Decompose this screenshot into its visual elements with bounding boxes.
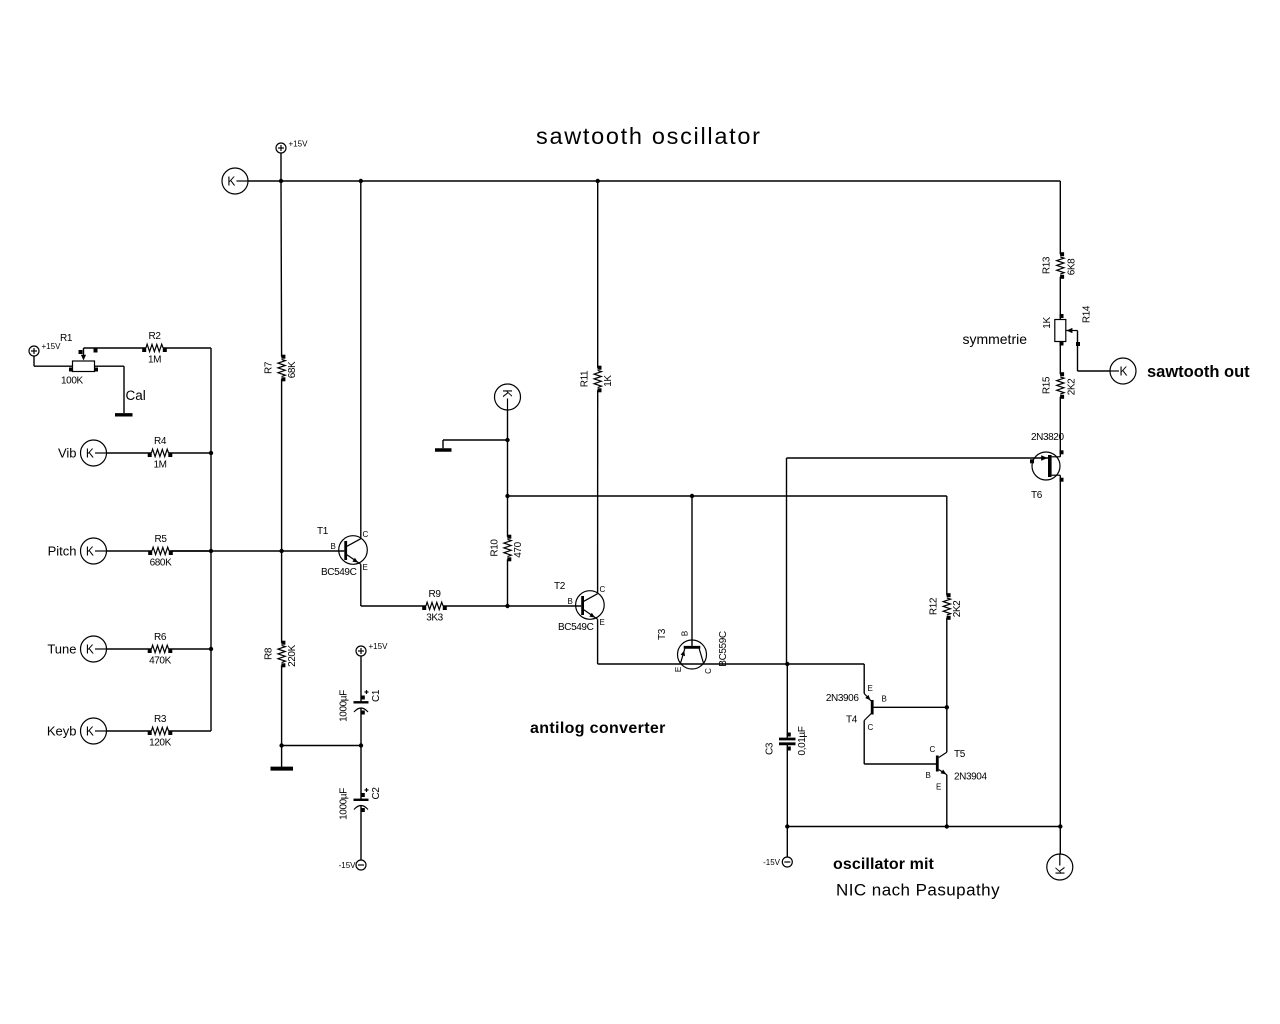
svg-text:C2: C2 [371, 787, 382, 800]
junction bus Vib [209, 451, 213, 455]
transistor T6 (JFET) [1032, 452, 1060, 480]
junction C mid [359, 743, 363, 747]
resistor R10 [504, 539, 511, 556]
resistor R9 [426, 602, 443, 609]
junction bus Tune [209, 647, 213, 651]
transistor T1 [339, 536, 368, 565]
svg-text:K: K [86, 544, 94, 559]
power -15V right [782, 857, 792, 867]
power +15V at C1 [356, 646, 366, 656]
ground mid [435, 448, 452, 451]
wire rail to R11 [597, 181, 599, 368]
junction rail/T1 collector [359, 179, 363, 183]
svg-text:R12: R12 [929, 597, 940, 615]
capacitor C1 [354, 701, 369, 703]
potentiometer R1 body [73, 361, 95, 372]
svg-text:K: K [86, 724, 94, 739]
svg-text:2N3904: 2N3904 [954, 772, 987, 783]
wire R15 to T6 drain [1059, 397, 1061, 457]
transistor T3 [678, 640, 707, 669]
svg-text:100K: 100K [61, 376, 83, 387]
terminal K sawtooth out [1110, 358, 1136, 384]
wire R13 to R14 [1059, 277, 1061, 320]
transistor T5 [936, 756, 939, 772]
wire R5 to bus [169, 550, 211, 552]
svg-text:E: E [363, 563, 368, 572]
svg-text:antilog converter: antilog converter [530, 720, 666, 737]
svg-text:-15V: -15V [763, 858, 781, 867]
svg-text:B: B [331, 542, 336, 551]
svg-text:220K: 220K [287, 644, 298, 666]
svg-text:2K2: 2K2 [952, 600, 963, 617]
wire wiper to R2 [84, 347, 146, 349]
junction rail/right column [1058, 824, 1062, 828]
svg-text:R5: R5 [155, 534, 168, 545]
junction rail/C3 [785, 824, 789, 828]
svg-text:-15V: -15V [339, 861, 357, 870]
wire R12 to T5 collector [946, 618, 948, 753]
svg-text:E: E [936, 783, 941, 792]
terminal K Vib [81, 440, 107, 466]
wire K mid down [507, 410, 509, 440]
svg-text:Tune: Tune [47, 642, 76, 657]
resistor R11 [594, 370, 601, 387]
junction rail/T5 emitter [945, 824, 949, 828]
transistor T4 [871, 700, 874, 715]
potentiometer R14 body [1055, 320, 1066, 342]
svg-text:T5: T5 [954, 749, 966, 760]
resistor R2 [146, 344, 163, 351]
svg-text:R6: R6 [154, 632, 167, 643]
svg-text:B: B [681, 631, 690, 636]
resistor R3 [151, 727, 168, 734]
svg-text:K: K [227, 174, 235, 189]
power +15V at R1 [29, 346, 39, 356]
junction R10/long wire [505, 494, 509, 498]
svg-text:K: K [1053, 866, 1068, 874]
svg-text:R9: R9 [429, 589, 442, 600]
R14 wiper [1066, 330, 1078, 332]
svg-text:R1: R1 [60, 333, 73, 344]
junction bus Pitch [209, 549, 213, 553]
terminal K Tune [81, 636, 107, 662]
svg-text:K: K [86, 446, 94, 461]
wire wiper to sawtooth out [1077, 331, 1079, 372]
junction rail/R7 column [279, 179, 283, 183]
svg-text:K: K [86, 642, 94, 657]
wire Pitch row to T1 base [171, 550, 344, 552]
svg-text:T1: T1 [317, 526, 329, 537]
svg-text:+15V: +15V [369, 642, 389, 651]
junction K/ground tee [505, 438, 509, 442]
svg-text:1000µF: 1000µF [339, 788, 350, 820]
ground Cal [115, 413, 133, 416]
terminal K top-left [222, 168, 248, 194]
svg-text:2N3906: 2N3906 [826, 693, 859, 704]
wire R9 to T2 base [443, 605, 581, 607]
wire Tune to R6 [107, 648, 152, 650]
wire R8 to ground [281, 665, 283, 767]
wire left bus [210, 348, 212, 731]
svg-text:R10: R10 [490, 539, 501, 557]
wire R4 to bus [169, 452, 211, 454]
wire T6 gate [787, 457, 1049, 459]
wire node row 496 [508, 495, 947, 497]
svg-text:C: C [704, 668, 713, 674]
svg-text:B: B [568, 597, 573, 606]
svg-text:Cal: Cal [126, 388, 146, 403]
wire T1 emitter to R9 [360, 564, 362, 606]
junction rail/R11 column [596, 179, 600, 183]
svg-text:Keyb: Keyb [47, 724, 77, 739]
wire T3 base [691, 496, 693, 646]
svg-text:R3: R3 [154, 714, 167, 725]
svg-text:6K8: 6K8 [1066, 258, 1077, 275]
svg-text:T6: T6 [1031, 490, 1043, 501]
power -15V at C2 [356, 860, 366, 870]
svg-text:BC549C: BC549C [321, 567, 357, 578]
junction Pitch/R7 column [279, 549, 283, 553]
svg-text:Vib: Vib [58, 446, 77, 461]
resistor R6 [151, 645, 168, 652]
svg-text:R4: R4 [154, 436, 167, 447]
wire T2 emitter down [597, 619, 599, 664]
svg-text:0,01µF: 0,01µF [797, 726, 808, 755]
wire R6 to bus [169, 648, 211, 650]
resistor R8 [278, 645, 285, 662]
svg-text:R7: R7 [264, 361, 275, 374]
svg-text:R13: R13 [1041, 256, 1052, 274]
svg-text:68K: 68K [287, 361, 298, 378]
wire R7 to R8 [281, 379, 283, 642]
resistor R15 [1057, 377, 1064, 394]
wire R1 to Cal ground [95, 365, 125, 367]
resistor R7 [278, 359, 285, 376]
wire 496 corner down to R12 [946, 496, 948, 595]
svg-text:470K: 470K [149, 656, 171, 667]
svg-text:1K: 1K [1042, 317, 1053, 329]
resistor R12 [943, 598, 950, 615]
svg-text:1K: 1K [603, 375, 614, 387]
svg-text:C: C [600, 585, 606, 594]
svg-text:C1: C1 [371, 689, 382, 702]
svg-text:Pitch: Pitch [48, 544, 77, 559]
svg-text:470: 470 [513, 541, 524, 557]
svg-text:R15: R15 [1041, 376, 1052, 394]
svg-text:1000µF: 1000µF [339, 690, 350, 722]
svg-text:R2: R2 [149, 331, 162, 342]
svg-text:symmetrie: symmetrie [962, 331, 1027, 347]
capacitor C2 [354, 799, 369, 801]
wire +15V to rail [280, 153, 282, 181]
svg-text:1M: 1M [153, 460, 166, 471]
svg-text:T2: T2 [554, 581, 566, 592]
transistor T2 [576, 591, 605, 620]
wire to R10 [507, 440, 509, 537]
wire C1 to C2 [360, 708, 362, 800]
svg-text:120K: 120K [149, 738, 171, 749]
wire emitter row 664 [598, 663, 865, 665]
svg-text:C3: C3 [765, 742, 776, 755]
junction R8/C-mid wire [279, 743, 283, 747]
svg-text:NIC nach Pasupathy: NIC nach Pasupathy [836, 881, 1000, 900]
svg-text:E: E [868, 684, 873, 693]
wire +15V to R1 left [33, 356, 35, 366]
svg-text:C: C [363, 530, 369, 539]
wire top rail [248, 180, 1060, 182]
svg-text:680K: 680K [150, 558, 172, 569]
ground R8 [271, 767, 294, 771]
wire Pitch to R5 [107, 550, 152, 552]
svg-text:C: C [868, 723, 874, 732]
terminal K bottom right [1047, 854, 1073, 880]
svg-text:+15V: +15V [289, 140, 309, 149]
svg-text:BC549C: BC549C [558, 622, 594, 633]
svg-text:R11: R11 [580, 370, 591, 387]
wire rail to R7 [280, 181, 283, 357]
svg-text:C: C [930, 745, 936, 754]
junction T3 base tee [690, 494, 694, 498]
resistor R5 [152, 547, 169, 554]
svg-text:2N3820: 2N3820 [1031, 432, 1064, 443]
svg-text:T3: T3 [657, 628, 668, 640]
wire rail to -15V [786, 827, 788, 858]
junction R9/R10 [505, 604, 509, 608]
svg-text:B: B [926, 771, 931, 780]
junction 664/C3 column [785, 662, 789, 666]
svg-text:3K3: 3K3 [426, 613, 443, 624]
terminal K Keyb [81, 718, 107, 744]
svg-text:1M: 1M [148, 355, 161, 366]
svg-text:R14: R14 [1082, 305, 1093, 323]
wire to mid ground [443, 439, 508, 441]
power +15V top [276, 143, 286, 153]
wire rail corner down to R13 [1059, 181, 1061, 254]
wire T1 collector [360, 181, 362, 539]
svg-text:E: E [674, 667, 683, 672]
svg-text:E: E [600, 618, 605, 627]
wire C2 to -15V [360, 806, 362, 861]
wire R3 to bus corner [169, 730, 211, 732]
terminal K Pitch [81, 538, 107, 564]
svg-text:BC559C: BC559C [718, 631, 729, 667]
R1 wiper [83, 348, 85, 356]
svg-text:+15V: +15V [42, 342, 62, 351]
capacitor C3 [786, 664, 788, 738]
wire R8 junction to C mid [282, 745, 361, 747]
wire R10 to R9 wire [507, 559, 509, 606]
svg-text:T4: T4 [846, 715, 858, 726]
wire R14 to R15 [1059, 342, 1061, 375]
terminal K mid [495, 384, 521, 410]
svg-text:K: K [500, 389, 515, 397]
svg-text:B: B [882, 695, 887, 704]
wire rail to K bottom [1059, 827, 1061, 855]
wire Keyb to R3 [107, 730, 152, 732]
wire bottom rail [787, 826, 1060, 828]
junction T4 base/R12 [945, 705, 949, 709]
resistor R13 [1057, 257, 1064, 274]
wire R11 to T2 collector [597, 390, 599, 593]
svg-text:oscillator mit: oscillator mit [833, 856, 935, 873]
svg-text:K: K [1120, 364, 1128, 379]
svg-text:sawtooth out: sawtooth out [1147, 363, 1250, 381]
wire R2 to bus [163, 347, 211, 349]
svg-text:sawtooth oscillator: sawtooth oscillator [536, 123, 762, 149]
resistor R4 [151, 449, 168, 456]
svg-text:R8: R8 [264, 647, 275, 660]
wire T6 source down [1059, 475, 1061, 826]
wire Vib to R4 [107, 452, 152, 454]
svg-text:2K2: 2K2 [1066, 378, 1077, 395]
wire +15V to C1 [360, 656, 362, 702]
